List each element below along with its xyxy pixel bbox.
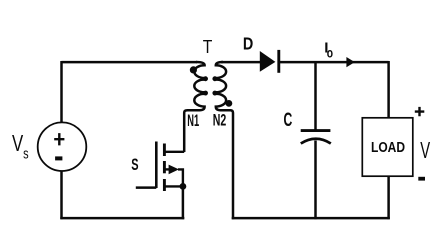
diode D (260, 50, 279, 73)
wire top rail diode to load corner (279, 61, 389, 64)
svg-text:o: o (327, 45, 333, 60)
svg-text:V: V (12, 130, 24, 156)
junction dot MOSFET source node (180, 183, 187, 190)
transformer T primary winding N1 (184, 62, 207, 152)
wire bottom-left rail (primary side) (60, 217, 184, 220)
svg-text:N2: N2 (213, 112, 227, 130)
wire top-left rail from source to transformer primary (62, 61, 198, 64)
svg-text:s: s (23, 146, 29, 162)
wire capacitor branch from top rail (314, 62, 317, 131)
capacitor C (301, 131, 331, 144)
svg-text:C: C (284, 110, 293, 131)
transformer secondary polarity dot (226, 100, 233, 107)
wire top rail transformer secondary to diode (221, 61, 261, 64)
svg-text:T: T (203, 36, 213, 57)
wire output corner down to load (387, 61, 390, 118)
label Io (324, 39, 333, 60)
wire load to bottom rail (387, 176, 390, 219)
label Vs (12, 130, 29, 163)
wire MOSFET source to bottom rail (182, 186, 185, 219)
svg-text:D: D (243, 33, 253, 53)
wire bottom-right rail (secondary side) (232, 217, 390, 220)
transformer T secondary winding N2 (214, 62, 233, 219)
svg-text:N1: N1 (187, 112, 199, 130)
wire left vertical lower (source bottom) (60, 171, 63, 220)
transistor S (MOSFET switch) (136, 142, 184, 192)
svg-text:LOAD: LOAD (371, 139, 405, 156)
label + output polarity (415, 107, 425, 116)
transformer primary polarity dot (190, 66, 197, 73)
load box (362, 118, 413, 176)
wire capacitor to bottom rail (314, 141, 317, 220)
svg-text:S: S (131, 156, 138, 174)
voltage source Vs (38, 122, 87, 171)
wire left vertical upper (source top) (60, 61, 63, 123)
label - output polarity (418, 177, 425, 181)
current arrow Io (346, 57, 354, 67)
svg-text:V: V (420, 137, 430, 163)
